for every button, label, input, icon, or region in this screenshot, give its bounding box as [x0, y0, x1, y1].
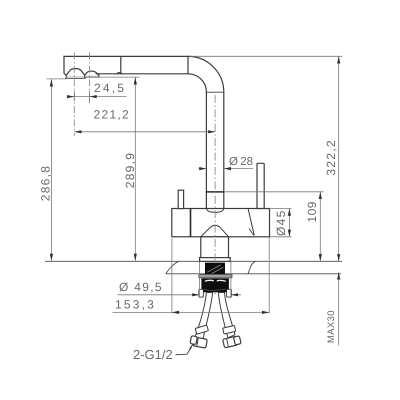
arrow diam28 left [199, 167, 206, 170]
svg-text:2-G1/2: 2-G1/2 [133, 347, 173, 362]
aerator bump 2 plinth [84, 75, 100, 77]
dim diam45 ext top [270, 208, 292, 210]
arrow 221,2 right [208, 130, 215, 133]
arrow 153,3 right [262, 311, 269, 314]
dim 109 line [319, 192, 321, 261]
svg-text:221,2: 221,2 [94, 108, 131, 122]
hose right crimp band [223, 325, 236, 334]
arrow 153,3 left [172, 311, 179, 314]
mounting shank black block [205, 263, 225, 275]
dim 221,2 line [74, 131, 215, 133]
hose right [218, 293, 235, 338]
aerator plinth shading 2 [85, 76, 98, 77]
wire spout seam at elbow start [187, 56, 189, 73]
aerator bump 2 [85, 71, 99, 75]
svg-text:Ø 49,5: Ø 49,5 [119, 280, 163, 294]
lock nut black block [201, 278, 229, 292]
dim diam45 ext bottom [270, 236, 292, 238]
centerline spout outlet 1 [73, 53, 75, 137]
aerator bump 1 [66, 69, 85, 76]
wire pipe seam below elbow [206, 91, 223, 93]
dim 289,9 line [134, 77, 136, 261]
svg-text:153,3: 153,3 [115, 298, 156, 312]
hose left fitting end cap [190, 336, 197, 345]
svg-text:286,8: 286,8 [38, 165, 52, 202]
dim diam49,5 line [118, 294, 242, 296]
countertop left break [166, 261, 179, 274]
hose right fitting end cap [233, 336, 241, 345]
svg-text:Ø45: Ø45 [274, 209, 288, 236]
washer plate [199, 274, 232, 278]
dim 153,3 line [113, 311, 270, 313]
arrow 289,9 top [134, 77, 137, 84]
body left seam [190, 209, 192, 237]
aerator bump 1 plinth [66, 75, 86, 78]
arrow 322,2 bottom [337, 254, 340, 261]
wire detent blip on spout underside [117, 72, 122, 73]
arrow 221,2 left [74, 130, 81, 133]
arrow 289,9 bottom [134, 254, 137, 261]
arrow diam45 bottom [288, 230, 291, 237]
stud tab left [199, 289, 203, 297]
dim 322,2 ext top [190, 55, 342, 57]
countertop right break [248, 261, 256, 274]
centerline spout outlet 2 [89, 53, 91, 102]
wire pipe collar seam [206, 191, 223, 193]
arrowheads [50, 56, 341, 314]
dim diam45 line [288, 209, 290, 237]
leader 2-G1/2 [176, 344, 193, 354]
left peg [178, 190, 183, 208]
svg-text:MAX30: MAX30 [326, 310, 337, 343]
dim diam49,5 ext left [198, 262, 200, 298]
dim 289,9 extension line [99, 76, 140, 78]
stud tab right [227, 289, 232, 297]
hose left [195, 293, 213, 340]
svg-text:24,5: 24,5 [94, 81, 126, 95]
dim 286,8 extension line [47, 78, 67, 80]
wire spray head seam [120, 57, 122, 74]
arrow 109 bottom [319, 254, 322, 261]
svg-text:322,2: 322,2 [324, 139, 338, 176]
arrow 286,8 top [50, 79, 53, 86]
wire spout head left edge [64, 56, 66, 75]
svg-text:289,9: 289,9 [123, 152, 137, 189]
dim 24,5 tick a [73, 91, 75, 101]
dim 322,2 / MAX30 line [338, 56, 340, 345]
arrow diam49,5 left outside [192, 293, 199, 296]
dim 153,3 ext right [268, 238, 270, 314]
dim diam28 line [199, 168, 253, 170]
arrow diam45 top [288, 209, 291, 216]
pipe bottom cap arc [206, 209, 223, 213]
funnel chevron inside body [201, 225, 229, 237]
arrow 109 top [319, 192, 322, 199]
valve diagonal seam [248, 209, 254, 236]
dim 24,5 line [67, 96, 127, 98]
arrow diam28 right [224, 167, 231, 170]
arrow 24,5 right outside [90, 95, 97, 98]
arrow diam49,5 right outside [231, 293, 238, 296]
dim 109 ext line [225, 191, 324, 193]
neck below body [201, 237, 229, 258]
handle rod [257, 163, 264, 208]
hose left crimp band [195, 325, 208, 334]
svg-text:Ø 28: Ø 28 [229, 156, 253, 168]
hose left fitting nut body [193, 337, 208, 348]
dim diam49,5 ext right [230, 262, 232, 298]
countertop top line [45, 260, 342, 262]
dim 24,5 tick b [89, 91, 91, 103]
dim 286,8 line [50, 79, 52, 261]
countertop bottom line [166, 273, 342, 275]
arrow MAX30 up [337, 272, 340, 279]
body cylinder [172, 209, 270, 237]
valve small wedge [249, 229, 254, 236]
hose right fitting nut body [223, 336, 238, 348]
dim 153,3 ext left [171, 239, 173, 314]
wire spout outer profile (top line, elbow, down pipe) [64, 56, 224, 208]
flange [200, 258, 231, 262]
arrow 24,5 left outside [67, 95, 74, 98]
aerator plinth shading 1 [67, 76, 84, 78]
arrow 322,2 top [337, 56, 340, 63]
leader arrow dot [189, 344, 193, 349]
svg-text:109: 109 [305, 201, 319, 223]
arrow 286,8 bottom [50, 254, 53, 261]
centerline pipe axis [214, 95, 216, 296]
